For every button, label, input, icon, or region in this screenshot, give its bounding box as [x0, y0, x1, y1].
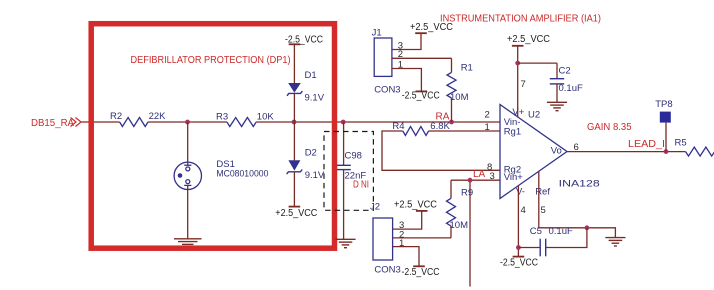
power +2.5_VCC below D2 — [275, 207, 317, 219]
wire -2.5_VCC to D1 — [293, 44, 295, 83]
svg-text:6.8K: 6.8K — [430, 121, 450, 132]
wire TP8 stem — [665, 123, 667, 152]
zener diode D2 — [287, 160, 303, 174]
power -2.5_VCC below J2 — [402, 266, 440, 278]
capacitor C98 — [336, 165, 350, 169]
power -2.5_VCC below pin4 — [500, 257, 538, 269]
wire J2 pin1 — [393, 247, 419, 267]
junction DS1 tap — [185, 120, 190, 125]
wire port to R2 — [81, 121, 120, 123]
svg-text:LA: LA — [473, 169, 486, 180]
svg-text:Ref: Ref — [535, 187, 550, 198]
ground under C98 — [335, 239, 355, 247]
svg-text:+2.5_VCC: +2.5_VCC — [394, 199, 437, 210]
svg-text:INSTRUMENTATION AMPLIFIER (IA1: INSTRUMENTATION AMPLIFIER (IA1) — [440, 14, 601, 25]
wire V- pin4 — [517, 186, 519, 257]
svg-text:+2.5_VCC: +2.5_VCC — [410, 22, 453, 33]
junction TP8 — [664, 149, 669, 154]
svg-text:R3: R3 — [216, 112, 228, 123]
capacitor C2 — [550, 79, 564, 84]
resistor R5 — [686, 147, 714, 156]
svg-text:5: 5 — [541, 205, 546, 216]
red box defibrillator protection — [91, 24, 334, 249]
wire LA down offpage — [469, 180, 471, 286]
svg-text:Vo: Vo — [551, 146, 562, 157]
svg-text:Rg1: Rg1 — [504, 126, 521, 137]
wire R2 to R3 — [148, 121, 227, 123]
wire C98 vertical upper — [343, 122, 345, 165]
ground at Ref — [605, 238, 625, 246]
svg-text:TP8: TP8 — [655, 99, 672, 110]
wire DS1 vertical — [187, 122, 189, 165]
ground under DS1 — [174, 239, 202, 247]
junction pin4 C5 — [516, 245, 521, 250]
test point TP8 — [660, 112, 671, 123]
svg-text:+2.5_VCC: +2.5_VCC — [507, 34, 550, 45]
wire C2 to ground — [556, 84, 558, 102]
svg-text:R5: R5 — [675, 137, 687, 148]
junction Ref C5 — [585, 225, 590, 230]
ground under C2 — [547, 102, 567, 110]
wire R1 bottom lead — [451, 98, 453, 122]
svg-text:R9: R9 — [461, 187, 473, 198]
wire R9 top lead — [450, 180, 452, 198]
svg-text:D1: D1 — [305, 70, 317, 81]
svg-text:9.1V: 9.1V — [305, 93, 325, 104]
power +2.5_VCC above J2 — [394, 199, 437, 211]
svg-text:LEAD_I: LEAD_I — [628, 139, 665, 150]
wire Ref pin5 — [539, 171, 616, 237]
svg-text:J2: J2 — [370, 202, 380, 213]
wire op-amp pin1 to R4 — [429, 130, 500, 132]
svg-text:0.1uF: 0.1uF — [559, 83, 583, 94]
wire V+ supply — [517, 46, 519, 118]
resistor R1 — [447, 72, 456, 98]
junction R1 to RA — [449, 120, 454, 125]
wire R4 loop to pin8 — [382, 131, 500, 170]
wire D2 to +2.5_VCC — [293, 172, 295, 207]
svg-text:4: 4 — [521, 205, 526, 216]
wire J1 pin2 to R1 — [392, 57, 452, 59]
svg-text:R1: R1 — [461, 63, 473, 74]
svg-text:3: 3 — [490, 171, 495, 182]
wire R9 bottom lead — [450, 226, 452, 238]
node DB15_RA port — [31, 118, 81, 130]
wire J1 pin3 — [392, 33, 421, 49]
svg-text:C2: C2 — [559, 66, 571, 77]
zener diode D1 — [287, 83, 302, 96]
svg-text:9.1V: 9.1V — [305, 170, 325, 181]
wire R1 top lead — [451, 58, 453, 72]
svg-text:Vin+: Vin+ — [504, 172, 524, 183]
svg-text:DB15_RA: DB15_RA — [31, 118, 74, 129]
svg-text:10K: 10K — [257, 112, 275, 123]
junction D1 D2 — [292, 120, 297, 125]
wire J1 pin1 — [392, 69, 422, 92]
wire C5 left lead — [518, 247, 540, 249]
resistor R3 — [227, 118, 256, 127]
wire LA net — [451, 179, 500, 181]
wire R3 to op-amp pin2 (RA net) — [256, 121, 500, 123]
DNI dashed box — [324, 132, 373, 211]
svg-text:C5: C5 — [530, 226, 542, 237]
svg-text:GAIN 8.35: GAIN 8.35 — [587, 122, 632, 133]
wire J2 pin3 — [393, 211, 422, 229]
wire RA to D2 — [293, 122, 295, 160]
wire C5 branch — [546, 228, 587, 248]
junction C98 tap — [341, 120, 346, 125]
svg-text:2: 2 — [485, 110, 490, 121]
svg-text:DEFIBRILLATOR PROTECTION (DP1): DEFIBRILLATOR PROTECTION (DP1) — [131, 55, 291, 66]
svg-text:+2.5_VCC: +2.5_VCC — [275, 208, 317, 219]
resistor R4 — [403, 127, 429, 136]
power +2.5_VCC above U2 — [507, 34, 550, 46]
svg-text:7: 7 — [521, 79, 526, 90]
capacitor C5 — [540, 239, 546, 257]
svg-text:D2: D2 — [305, 148, 317, 159]
svg-text:J1: J1 — [372, 28, 382, 39]
svg-text:1: 1 — [485, 122, 490, 133]
svg-text:-2.5_VCC: -2.5_VCC — [500, 258, 538, 269]
junction LA — [468, 178, 473, 183]
resistor R2 — [120, 118, 148, 127]
wire C98 to ground — [343, 170, 345, 239]
svg-text:0.1uF: 0.1uF — [549, 226, 573, 237]
svg-text:MC08010000: MC08010000 — [216, 169, 268, 180]
connector J1 — [374, 38, 392, 76]
power +2.5_VCC above J1 — [410, 22, 453, 33]
connector J2 — [373, 218, 393, 260]
svg-text:22K: 22K — [149, 111, 167, 122]
svg-text:R2: R2 — [110, 111, 122, 122]
resistor R9 — [447, 198, 456, 226]
svg-text:U2: U2 — [528, 110, 540, 121]
op-amp U2 INA128 — [500, 105, 567, 199]
wire D1 to RA — [293, 93, 295, 122]
wire to C2 — [518, 62, 557, 64]
svg-text:CON3: CON3 — [374, 85, 400, 96]
wire C2 top lead — [556, 63, 558, 78]
svg-text:V-: V- — [516, 187, 525, 198]
wire J2 pin2 to R9 — [393, 237, 451, 239]
svg-text:-2.5_VCC: -2.5_VCC — [402, 91, 440, 102]
power -2.5_VCC top of D1 — [285, 35, 323, 46]
svg-text:-2.5_VCC: -2.5_VCC — [402, 267, 440, 278]
power -2.5_VCC below J1 — [402, 91, 440, 102]
svg-text:D NI: D NI — [353, 180, 369, 191]
svg-text:INA128: INA128 — [559, 179, 600, 190]
svg-text:C98: C98 — [345, 151, 362, 162]
svg-text:10M: 10M — [450, 92, 469, 103]
wire output Vo — [567, 151, 686, 153]
junction V+ branch — [515, 61, 520, 66]
surge arrester DS1 — [174, 162, 201, 189]
svg-text:10M: 10M — [450, 220, 469, 231]
svg-text:CON3: CON3 — [374, 265, 400, 276]
